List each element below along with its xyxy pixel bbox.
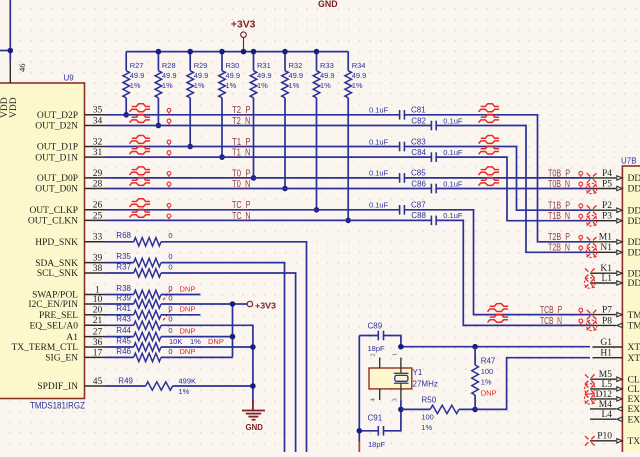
svg-text:EXT: EXT [628,405,640,415]
svg-text:DNP: DNP [180,284,196,293]
svg-text:1%: 1% [352,81,363,90]
svg-text:N1: N1 [600,243,612,253]
resistor R27 49.9 1% [123,52,144,115]
svg-text:R37: R37 [116,262,131,271]
junction rail/R28 [156,49,162,55]
resistor R34 49.9 1% [345,52,366,221]
svg-text:C84: C84 [411,148,426,157]
svg-text:OUT_D1P: OUT_D1P [37,143,78,153]
svg-text:C85: C85 [411,169,426,178]
svg-text:34: 34 [93,116,103,126]
svg-text:T2_N: T2_N [232,116,251,127]
svg-text:OUT_D0P: OUT_D0P [37,174,78,184]
wire pin10 to R39 [106,303,134,305]
svg-text:M5: M5 [599,370,612,380]
svg-text:499K: 499K [179,376,197,385]
wire R44 right to +3V3 bus [161,336,233,338]
svg-text:T2_P: T2_P [232,105,251,116]
wire net T1_P: U9 pin32 to C83, down to T1B_P row [106,146,400,148]
svg-text:21: 21 [93,316,103,326]
svg-text:2: 2 [370,353,377,356]
svg-text:R41: R41 [116,304,131,313]
Y1 pin 2 stub [379,358,381,369]
U9 pin 27 A1 [66,328,106,343]
no-ERC red cross [585,268,595,278]
svg-text:R29: R29 [194,61,208,70]
U9 pin 28 OUT_D0N [35,179,106,194]
svg-text:1%: 1% [130,81,141,90]
no-ERC red cross [585,394,596,405]
svg-text:U7B: U7B [621,157,637,166]
junction +3V3/R39 [230,301,236,307]
wire pin27 to R44 [106,336,134,338]
no-ERC red cross [586,183,597,194]
no-ERC red cross [587,173,597,183]
svg-text:49.9: 49.9 [194,71,209,80]
svg-text:OUT_D2P: OUT_D2P [37,111,78,121]
svg-text:0: 0 [168,231,172,240]
svg-text:OUT_D1N: OUT_D1N [35,153,78,163]
svg-text:0.1uF: 0.1uF [369,137,389,146]
svg-text:DDC: DDC [628,174,640,184]
wire pin33 to R68 [106,241,134,243]
capacitor C86 0.1uF [411,179,463,193]
capacitor C81 0.1uF [369,106,426,120]
wire net T2_N: U9 pin34 to C82, down to T2B_N row [106,125,431,127]
svg-text:DDC: DDC [628,279,640,289]
U9 pin 39 SDA_SNK [35,254,106,269]
svg-text:0.1uF: 0.1uF [369,169,389,178]
svg-text:SCL_SNK: SCL_SNK [37,269,78,279]
svg-text:R45: R45 [116,336,131,345]
svg-text:DNP: DNP [481,389,497,398]
svg-text:R43: R43 [116,315,131,324]
wire R46 right to +3V3 bus end [161,356,233,358]
svg-text:P8: P8 [602,316,612,326]
no-ERC red cross [585,436,595,446]
Y1 pin 4 stub [379,389,381,400]
U7B pin K1 [590,264,640,279]
wire net HPD: R68 right, down at x306.5 [161,242,307,452]
svg-text:T2B_P: T2B_P [548,232,570,243]
ground symbol GND [242,401,265,420]
wire Y1 pin3 to R50 node [400,401,402,410]
red parameter marker [167,119,171,125]
svg-text:0: 0 [168,252,172,261]
svg-text:1%: 1% [194,81,205,90]
svg-text:EXT: EXT [628,415,640,425]
svg-text:49.9: 49.9 [289,71,304,80]
junction R28 bottom [156,123,162,129]
wire net T1_N: U9 pin31 to C84, down to T1B_N row [106,156,431,158]
svg-text:R33: R33 [320,61,334,70]
U9 pin 25 OUT_CLKN [28,211,106,226]
svg-text:T1B_N: T1B_N [548,211,570,222]
svg-text:PRE_SEL: PRE_SEL [39,311,78,321]
resistor R38 0 DNP [116,284,195,300]
svg-text:CLK: CLK [628,385,640,395]
connector U7B body [622,166,640,457]
resistor R32 49.9 1% [282,52,303,189]
svg-text:R27: R27 [130,61,144,70]
svg-text:27: 27 [93,328,103,338]
svg-text:0.1uF: 0.1uF [443,211,463,220]
svg-text:EXT: EXT [628,395,640,405]
svg-text:49.9: 49.9 [352,71,367,80]
svg-text:1%: 1% [162,81,173,90]
differential pair directive [130,209,151,217]
svg-text:DNP: DNP [208,337,224,346]
no-ERC red cross [585,384,596,395]
red parameter marker [579,204,583,210]
svg-text:0.1uF: 0.1uF [369,106,389,115]
red parameter marker [579,235,583,241]
wire net SCL: R37 right, down at x295.6 [161,273,296,452]
junction R47 top [472,344,478,350]
svg-text:C83: C83 [411,137,426,146]
Y1 pin 1 stub [400,358,402,369]
svg-text:TXS: TXS [628,437,640,447]
U7B pin D12 [590,390,640,405]
svg-text:OUT_CLKP: OUT_CLKP [29,206,78,216]
svg-text:25: 25 [93,211,103,221]
svg-text:R50: R50 [422,395,437,404]
svg-text:T0B_N: T0B_N [548,179,570,190]
differential pair directive [130,115,151,123]
red parameter marker [579,319,583,325]
wire pin1 to R38 [106,294,134,296]
svg-text:C91: C91 [368,414,383,423]
no-ERC red cross [586,320,597,331]
resistor R46 0 DNP [116,347,195,362]
svg-text:32: 32 [93,137,103,147]
svg-text:VDD: VDD [9,97,19,118]
wire net T0_P: U9 pin29 to C85 to U7B P4 [106,177,400,179]
resistor R35 0 [116,252,172,267]
resistor R50 100 1% [401,395,475,432]
svg-text:DDC: DDC [628,217,640,227]
junction rail/R30 [219,49,225,55]
resistor R30 49.9 1% [219,52,240,158]
U7B pin P8 [593,316,640,331]
junction R49/GND bus [250,383,256,389]
U9 pin 1 SWAP/POL [32,285,106,300]
wire pin36 to R45 [106,346,134,348]
differential pair directive [479,104,500,112]
svg-text:0.1uF: 0.1uF [443,179,463,188]
wire pin20 to R41 [106,314,134,316]
wire Y1 pin1 axis inside [400,368,402,373]
junction R44/+3V3 bus [230,334,236,340]
svg-text:31: 31 [93,148,103,158]
junction +3V3 rail at stem [241,49,247,55]
capacitor C82 0.1uF [411,116,463,130]
U9 pin 10 I2C_EN/PIN [28,295,106,310]
junction R45/GND bus [250,344,256,350]
red parameter marker [579,246,583,252]
U9 pin 34 OUT_D2N [35,116,106,131]
U9 pin 26 OUT_CLKP [29,201,106,216]
U9 pin 46 (top) [9,61,11,83]
svg-text:DDC: DDC [628,185,640,195]
svg-text:DNP: DNP [180,305,196,314]
U9 pin 32 OUT_D1P [37,137,106,152]
svg-text:0.1uF: 0.1uF [443,116,463,125]
wire pin39 to R35 [106,262,134,264]
svg-text:49.9: 49.9 [257,71,272,80]
svg-text:R44: R44 [116,326,131,335]
svg-text:18pF: 18pF [368,344,386,353]
resistor R29 49.9 1% [187,52,208,147]
svg-text:OUT_CLKN: OUT_CLKN [28,217,78,227]
svg-text:26: 26 [93,201,103,211]
svg-text:TC_P: TC_P [232,200,251,211]
wire pin38 to R37 [106,272,134,274]
no-ERC red cross [587,237,597,247]
U7B pin P5 [593,179,640,194]
red parameter marker [579,182,583,188]
sheet boundary stub (red) [358,442,360,453]
svg-text:1%: 1% [481,378,492,387]
svg-text:0: 0 [168,293,172,302]
resistor R49 499K 1% [118,376,196,395]
svg-text:49.9: 49.9 [226,71,241,80]
red parameter marker [167,203,171,209]
wire R38 right stub (DNP) [161,294,200,296]
differential pair directive [488,314,509,322]
red parameter marker [167,140,171,146]
U9 pin 17 SIG_EN [45,348,106,363]
svg-text:DNP: DNP [180,326,196,335]
resistor R44 0 DNP [116,326,195,341]
svg-text:28: 28 [93,179,103,189]
junction rail/R33 [314,49,320,55]
resistor R45 10K 1% DNP [116,336,224,351]
svg-text:49.9: 49.9 [320,71,335,80]
svg-text:1%: 1% [190,337,201,346]
svg-text:R34: R34 [352,61,366,70]
svg-text:P7: P7 [602,306,612,316]
svg-text:P2: P2 [602,201,612,211]
crystal symbol [394,373,409,383]
svg-text:R28: R28 [162,61,176,70]
wire net T2_P: U9 pin35 to C81 to vertical, down to T2B_P row [106,114,400,116]
svg-text:0: 0 [168,347,172,356]
U7B pin L5 [590,380,640,395]
U9 pin 29 OUT_D0P [37,169,106,184]
svg-text:T2B_N: T2B_N [548,243,570,254]
svg-text:A1: A1 [66,333,78,343]
U9 pin 45 SPDIF_IN [37,377,106,392]
wire pin17 to R46 [106,356,134,358]
svg-text:0.1uF: 0.1uF [369,201,389,210]
power port +3V3 (right) [247,301,252,306]
svg-text:G1: G1 [600,338,612,348]
svg-text:P4: P4 [602,169,612,179]
svg-text:M1: M1 [599,233,612,243]
U9 pin 31 OUT_D1N [35,148,106,163]
svg-text:R30: R30 [226,61,240,70]
U9 pin 36 TX_TERM_CTL [12,338,107,353]
svg-text:T1_N: T1_N [232,148,251,159]
svg-text:T1_P: T1_P [232,137,251,148]
junction R27 bottom [123,112,129,118]
red parameter marker [167,182,171,188]
svg-text:OUT_D2N: OUT_D2N [35,122,78,132]
junction rail/R31 [251,49,257,55]
capacitor C88 0.1uF [411,211,463,225]
svg-text:35: 35 [93,106,103,116]
resistor R33 49.9 1% [313,52,334,210]
svg-text:U9: U9 [64,74,75,83]
svg-text:XTA: XTA [628,343,640,353]
svg-text:10: 10 [93,295,103,305]
svg-text:R35: R35 [116,252,131,261]
wire VDD supply vertical to U9 pin 46 [9,0,11,61]
svg-text:P10: P10 [597,432,612,442]
differential pair directive [479,178,500,186]
svg-text:100: 100 [421,412,434,421]
svg-text:49.9: 49.9 [130,71,145,80]
U7B pin P3 [593,212,640,227]
svg-text:C89: C89 [368,322,383,331]
svg-text:TC_N: TC_N [232,211,251,222]
differential pair directive [130,104,151,112]
wire R41 right stub (DNP) [161,314,200,316]
svg-text:R31: R31 [257,61,271,70]
svg-text:45: 45 [93,377,103,387]
wire pin21 to R43 [106,324,134,326]
svg-text:1%: 1% [257,81,268,90]
differential pair directive [479,115,500,123]
wire VDD stub to left edge [0,50,10,52]
svg-text:C86: C86 [411,179,426,188]
junction R32 bottom [282,186,288,192]
differential pair directive [479,136,500,144]
svg-text:1: 1 [392,353,399,356]
svg-text:3: 3 [392,398,399,401]
differential pair directive [130,146,151,154]
capacitor C87 0.1uF [369,201,426,215]
svg-text:33: 33 [93,233,103,243]
svg-text:1%: 1% [289,81,300,90]
svg-text:1%: 1% [179,387,190,396]
svg-text:H1: H1 [600,349,612,359]
svg-text:T1B_P: T1B_P [548,201,570,212]
svg-text:T0_N: T0_N [232,179,251,190]
junction R29 bottom [187,144,193,150]
svg-text:DDC: DDC [628,206,640,216]
no-ERC red cross [587,205,597,215]
U9 pin 38 SCL_SNK [37,264,106,279]
U7B pin P4 [593,169,640,184]
svg-text:38: 38 [93,264,103,274]
U7B pin P7 [593,306,640,321]
power port +3V3 (top) [241,32,247,52]
svg-text:TCB_N: TCB_N [540,316,562,327]
red parameter marker [167,172,171,178]
junction R31 bottom [251,175,257,181]
wire net +3V3 strap: R39 right to power [161,303,233,305]
svg-text:+3V3: +3V3 [255,300,276,310]
red parameter marker [579,172,583,178]
capacitor C89 18pF [359,322,401,353]
svg-text:I2C_EN/PIN: I2C_EN/PIN [28,300,78,310]
wire net TC_N: U9 pin25 to C88, down to TCB_N row [106,219,431,221]
no-ERC red cross [585,278,596,289]
U9 pin 35 OUT_D2P [37,106,106,121]
svg-text:HPD_SNK: HPD_SNK [35,238,78,248]
svg-text:GND: GND [318,0,338,9]
wire +3V3 vertical strap bus [232,304,234,357]
svg-text:0.1uF: 0.1uF [443,148,463,157]
U7B pin P10 [590,432,640,447]
svg-text:P5: P5 [602,179,612,189]
junction C91/left rail [357,428,363,434]
wire net T0_N: U9 pin28 to C86 to U7B P5 [106,188,431,190]
U9 pin 20 PRE_SEL [39,306,106,321]
svg-text:0: 0 [168,315,172,324]
svg-text:R38: R38 [116,284,131,293]
Y1 pin 3 stub [400,389,402,401]
U7B pin H1 [593,349,640,364]
svg-text:Y1: Y1 [413,368,423,377]
svg-text:SIG_EN: SIG_EN [45,354,78,364]
differential pair directive [488,304,509,312]
U7B pin M5 [590,370,640,385]
resistor R47 100 1% DNP [472,347,497,410]
svg-text:TMDS181IRGZ: TMDS181IRGZ [30,401,85,411]
U7B pin L4 [590,410,640,425]
svg-text:C81: C81 [411,106,426,115]
resistor R28 49.9 1% [155,52,176,126]
no-ERC red cross [587,310,597,320]
svg-text:GND: GND [246,423,264,432]
svg-text:C88: C88 [411,211,426,220]
svg-text:1%: 1% [320,81,331,90]
red parameter marker [579,308,583,314]
capacitor C84 0.1uF [411,148,463,162]
svg-text:1%: 1% [421,423,432,432]
wire net SDA: R35 right, down at x284.5 [161,263,285,452]
svg-text:P3: P3 [602,212,612,222]
svg-text:T0_P: T0_P [232,168,251,179]
IC U9 TMDS181IRGZ body [0,83,85,399]
red parameter marker [167,214,171,220]
U7B pin P2 [593,201,640,216]
no-ERC red cross [586,247,597,258]
wire net TC_P: U9 pin26 to C87, down to TCB_P row [106,209,400,211]
no-ERC red cross [585,374,595,384]
wire R49 right to GND bus [173,385,253,387]
U7B pin N1 [593,243,640,258]
svg-text:SWAP/POL: SWAP/POL [32,291,78,301]
svg-text:R47: R47 [481,357,496,366]
wire net XTAL_H1: R50 node up to U7B H1 [475,358,590,410]
junction R34 bottom [345,218,351,224]
differential pair directive [130,199,151,207]
svg-text:18pF: 18pF [368,440,386,449]
svg-text:TCB_P: TCB_P [540,305,562,316]
svg-text:0: 0 [168,326,172,335]
svg-text:0: 0 [168,262,172,271]
no-ERC red cross [586,215,597,226]
svg-text:CLK: CLK [628,375,640,385]
wire pin45 to R49 [106,385,146,387]
junction VDD [8,48,14,54]
svg-text:R39: R39 [116,293,131,302]
junction rail/R29 [187,49,193,55]
